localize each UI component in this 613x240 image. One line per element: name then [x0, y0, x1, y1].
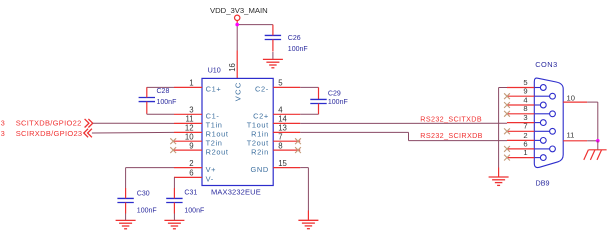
svg-text:C2+: C2+	[253, 112, 269, 121]
svg-text:10: 10	[185, 132, 194, 141]
pin 7 stub	[273, 140, 300, 142]
svg-text:8: 8	[523, 104, 527, 113]
pin 16 stub	[236, 51, 238, 79]
svg-text:2: 2	[189, 159, 193, 168]
DB9 pin 9 circle	[550, 93, 556, 99]
svg-text:7: 7	[523, 122, 527, 131]
DB9 pin 8 stub	[507, 113, 534, 115]
svg-text:15: 15	[278, 159, 287, 168]
svg-text:VCC: VCC	[234, 81, 243, 101]
DB9 pin 7 circle	[550, 128, 556, 134]
wire pin1 to C28	[147, 86, 174, 88]
pin 12 stub	[174, 131, 202, 133]
no-connect X on DB9 pin 8	[504, 111, 510, 117]
DB9 pin 1 circle	[540, 155, 546, 161]
svg-text:T1in: T1in	[206, 121, 223, 130]
svg-text:5: 5	[278, 79, 283, 88]
svg-text:C1+: C1+	[206, 85, 222, 94]
DB9 pin 5 circle	[540, 85, 546, 91]
svg-text:R1in: R1in	[251, 130, 269, 139]
wire SCITXDB to pin 11	[93, 122, 174, 124]
pin 8 stub	[273, 149, 300, 151]
svg-text:8: 8	[278, 141, 282, 150]
svg-text:C2-: C2-	[255, 85, 269, 94]
svg-text:5: 5	[523, 78, 527, 87]
DB9 pin 2 stub	[507, 139, 534, 141]
pin 3 stub	[174, 113, 202, 115]
svg-text:3: 3	[189, 106, 193, 115]
pin 4 stub	[273, 113, 300, 115]
node SCIRXDB/GPIO23 off-page connector	[1, 129, 92, 138]
wire net RS232_SCIRXDB pin13 to DB9 pin2	[300, 131, 408, 133]
junction VDD node	[235, 23, 239, 27]
capacitor C26 100nF	[265, 25, 308, 54]
svg-text:7: 7	[278, 132, 282, 141]
DB9 pin 3 circle	[540, 120, 546, 126]
svg-text:12: 12	[185, 124, 194, 133]
no-connect X on pin 10 T2in	[170, 138, 176, 144]
wire junction to chassis ground	[597, 141, 599, 150]
svg-text:R2out: R2out	[206, 147, 229, 156]
wire C26 to ground	[272, 52, 274, 59]
svg-text:SCITXDB/GPIO22: SCITXDB/GPIO22	[16, 119, 82, 128]
svg-text:T1out: T1out	[247, 121, 269, 130]
capacitor C29 100nF	[310, 87, 347, 114]
DB9 pin 6 stub	[507, 148, 534, 150]
DB9 shield pin 11	[563, 140, 587, 142]
wire C28 bottom to pin3	[146, 113, 148, 116]
svg-text:6: 6	[523, 139, 527, 148]
ground below DB9 pin5	[489, 176, 509, 178]
wire pin2 V+ to C30	[126, 167, 174, 169]
no-connect X on DB9 pin 4	[504, 102, 510, 108]
DB9 pin 9 stub	[507, 95, 534, 97]
svg-text:1: 1	[189, 79, 193, 88]
wire pin11 to junction	[587, 140, 598, 142]
svg-text:4: 4	[278, 106, 283, 115]
junction shield node	[596, 139, 600, 143]
svg-text:C26: C26	[288, 35, 301, 42]
svg-text:9: 9	[523, 87, 527, 96]
svg-text:4: 4	[523, 95, 527, 104]
svg-text:100nF: 100nF	[288, 46, 308, 53]
svg-text:C29: C29	[328, 90, 341, 97]
DB9 pin 7 stub	[507, 130, 534, 132]
svg-text:3: 3	[1, 119, 5, 128]
svg-text:T2out: T2out	[247, 138, 269, 147]
svg-text:DB9: DB9	[536, 179, 550, 188]
pin 2 stub	[174, 167, 202, 169]
DB9 pin 6 circle	[550, 146, 556, 152]
svg-text:MAX3232EUE: MAX3232EUE	[211, 187, 261, 196]
capacitor C30 100nF	[117, 188, 156, 214]
ground below C26	[263, 58, 283, 60]
DB9 pin 4 stub	[507, 104, 534, 106]
pin 1 stub	[174, 86, 202, 88]
wire SCIRXDB to pin 12	[92, 131, 174, 134]
DB9 pin 1 stub	[507, 157, 534, 159]
no-connect X on pin 9 R2out	[170, 147, 176, 153]
no-connect X on DB9 pin 1	[504, 155, 510, 161]
svg-text:V-: V-	[206, 175, 214, 184]
svg-text:R1out: R1out	[206, 130, 229, 139]
no-connect X on DB9 pin 6	[504, 146, 510, 152]
svg-text:6: 6	[189, 169, 193, 178]
svg-text:C1-: C1-	[206, 112, 220, 121]
ground below C30	[116, 219, 136, 221]
wire VDD junction to C26	[237, 24, 273, 26]
pin 11 stub	[174, 122, 202, 124]
power symbol VDD_3V3_MAIN	[210, 6, 268, 24]
svg-text:C30: C30	[137, 190, 150, 197]
no-connect X on pin 8 R2in	[295, 147, 301, 153]
DB9 pin 4 circle	[540, 102, 546, 108]
wire C29 bottom to pin4	[300, 113, 318, 115]
wire pin10 to junction	[587, 101, 598, 103]
svg-text:100nF: 100nF	[328, 99, 348, 106]
svg-text:14: 14	[278, 115, 287, 124]
pin 14 stub	[273, 122, 300, 124]
wire pin6 V- to C31	[173, 176, 175, 178]
svg-text:V+: V+	[206, 165, 217, 174]
pin number 16 (rotated)	[228, 63, 237, 72]
pin 10 stub	[174, 140, 202, 142]
svg-text:GND: GND	[251, 165, 269, 174]
pin 15 stub	[273, 167, 300, 169]
capacitor C28 100nF	[139, 87, 177, 113]
capacitor C31 100nF	[166, 188, 204, 214]
svg-text:1: 1	[523, 148, 527, 157]
ground below pin15	[298, 219, 318, 221]
svg-text:C28: C28	[157, 88, 170, 95]
wire pin15 GND down	[300, 167, 308, 169]
svg-text:SCIRXDB/GPIO23: SCIRXDB/GPIO23	[16, 129, 83, 138]
svg-text:CON3: CON3	[535, 60, 558, 69]
no-connect X on DB9 pin 7	[504, 128, 510, 134]
DB9 pin 8 circle	[550, 111, 556, 117]
svg-text:13: 13	[278, 124, 287, 133]
svg-text:U10: U10	[208, 66, 221, 75]
svg-text:C31: C31	[184, 190, 197, 197]
connector CON3 DB9 body	[534, 78, 563, 167]
chassis ground	[584, 150, 607, 160]
wire VDD junction down to U10 VCC pin 16	[236, 25, 238, 51]
DB9 pin 2 circle	[540, 138, 546, 144]
svg-text:11: 11	[186, 115, 194, 124]
svg-text:100nF: 100nF	[137, 207, 157, 214]
svg-text:3: 3	[1, 129, 5, 138]
svg-text:100nF: 100nF	[157, 99, 177, 106]
DB9 pin 5 stub	[507, 87, 534, 89]
wire C30 to ground	[125, 214, 127, 221]
op-amp U1 MAX3232EUE body U10	[202, 78, 273, 185]
svg-text:T2in: T2in	[206, 138, 223, 147]
pin 6 stub	[174, 176, 202, 178]
ground below C31	[164, 219, 184, 221]
svg-text:10: 10	[567, 94, 575, 103]
svg-text:9: 9	[189, 141, 193, 150]
wire DB9 pin5 to ground	[499, 87, 507, 89]
svg-text:R2in: R2in	[251, 147, 269, 156]
node SCITXDB/GPIO22 off-page connector	[1, 119, 93, 128]
svg-text:11: 11	[567, 131, 575, 140]
svg-text:RS232_SCIRXDB: RS232_SCIRXDB	[420, 131, 482, 140]
wire C31 to ground	[173, 214, 175, 221]
pin 9 stub	[174, 149, 202, 151]
svg-text:RS232_SCITXDB: RS232_SCITXDB	[420, 115, 482, 124]
no-connect X on pin 7 T2out	[295, 138, 301, 144]
pin 13 stub	[273, 131, 300, 133]
no-connect X on DB9 pin 9	[504, 93, 510, 99]
DB9 shield pin 10	[563, 101, 587, 103]
DB9 pin 3 stub	[507, 122, 534, 124]
pin name VCC (rotated)	[234, 81, 243, 101]
svg-text:3: 3	[523, 113, 527, 122]
svg-text:16: 16	[228, 63, 237, 72]
wire net RS232_SCITXDB pin14 to DB9 pin3	[300, 122, 507, 124]
svg-text:VDD_3V3_MAIN: VDD_3V3_MAIN	[210, 6, 268, 15]
wire pin5 to C29	[300, 86, 318, 88]
svg-text:100nF: 100nF	[184, 207, 204, 214]
pin 5 stub	[273, 86, 300, 88]
